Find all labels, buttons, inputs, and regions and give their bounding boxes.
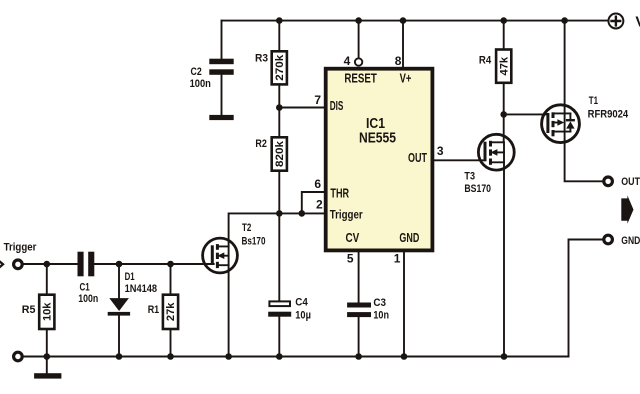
svg-text:T3: T3 (464, 171, 475, 183)
svg-text:C3: C3 (373, 297, 386, 309)
svg-text:NE555: NE555 (359, 131, 396, 147)
svg-text:270k: 270k (274, 55, 286, 81)
svg-text:3: 3 (437, 144, 444, 158)
svg-text:5: 5 (347, 252, 354, 266)
svg-text:10k: 10k (42, 302, 54, 321)
svg-text:GND: GND (399, 231, 419, 245)
svg-text:V: V (635, 14, 640, 31)
svg-text:D1: D1 (125, 271, 135, 283)
svg-text:27k: 27k (165, 302, 177, 321)
svg-text:RESET: RESET (344, 71, 377, 85)
svg-text:Trigger: Trigger (4, 241, 37, 253)
svg-text:6: 6 (314, 177, 321, 191)
svg-text:R2: R2 (255, 138, 267, 150)
svg-text:Bs170: Bs170 (242, 236, 266, 248)
svg-text:IC1: IC1 (366, 116, 385, 132)
svg-text:1: 1 (394, 252, 401, 266)
svg-text:T2: T2 (242, 222, 251, 234)
svg-text:THR: THR (330, 187, 349, 201)
svg-text:BS170: BS170 (464, 183, 491, 195)
svg-text:OUT: OUT (621, 176, 640, 188)
svg-text:C1: C1 (80, 281, 90, 293)
svg-text:2: 2 (316, 198, 323, 212)
svg-text:10µ: 10µ (295, 309, 311, 321)
svg-text:C4: C4 (295, 297, 308, 309)
svg-text:GND: GND (621, 235, 640, 247)
svg-text:8: 8 (395, 54, 402, 68)
svg-text:100n: 100n (190, 78, 212, 90)
svg-text:V+: V+ (400, 71, 412, 85)
svg-text:R1: R1 (148, 304, 160, 316)
svg-text:R3: R3 (255, 52, 268, 64)
svg-text:RFR9024: RFR9024 (588, 109, 629, 121)
svg-text:OUT: OUT (408, 151, 427, 165)
svg-text:CV: CV (346, 231, 360, 245)
svg-text:1N4148: 1N4148 (125, 283, 158, 295)
svg-text:47k: 47k (498, 57, 510, 76)
svg-text:4: 4 (344, 54, 351, 68)
svg-text:R5: R5 (22, 304, 36, 316)
svg-text:820k: 820k (274, 141, 286, 167)
svg-text:Trigger: Trigger (330, 207, 363, 221)
svg-text:R4: R4 (479, 55, 492, 67)
svg-text:7: 7 (314, 93, 321, 107)
svg-text:DIS: DIS (330, 99, 344, 113)
svg-text:10n: 10n (373, 309, 389, 321)
svg-text:T1: T1 (589, 95, 598, 107)
svg-text:100n: 100n (78, 293, 98, 305)
svg-text:C2: C2 (191, 66, 202, 78)
